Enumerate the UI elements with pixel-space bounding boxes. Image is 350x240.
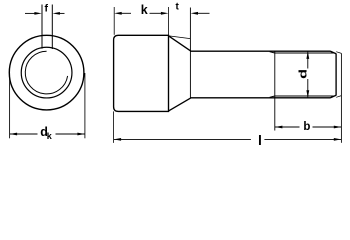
shank bottom line bbox=[190, 97, 330, 99]
svg-text:d: d bbox=[296, 69, 309, 79]
d dimension line with arrows (inside shank) bbox=[307, 51, 309, 68]
shank top line bbox=[190, 50, 330, 52]
dk dimension left extension line bbox=[9, 73, 11, 138]
slot edge left (front view) + extension line for f bbox=[41, 5, 43, 49]
k dimension line with arrows bbox=[122, 12, 132, 14]
tip edge bottom connector bbox=[336, 96, 341, 98]
cone top edge bbox=[169, 36, 191, 51]
tip end face bbox=[335, 54, 337, 96]
svg-text:k: k bbox=[141, 3, 148, 17]
dimension f right arrow bbox=[60, 12, 65, 14]
head top-face circle (front view) bbox=[21, 47, 72, 98]
thread minor diameter arc (front view, 3/4 circle) bbox=[25, 51, 67, 94]
tip chamfer top bbox=[331, 51, 337, 54]
b dimension line with arrows bbox=[275, 126, 300, 128]
head outer circle dk (front view) bbox=[9, 35, 84, 110]
cone bottom edge bbox=[169, 98, 191, 111]
thread minor line bottom with run-in ramp bbox=[270, 96, 335, 97]
svg-text:l: l bbox=[258, 132, 262, 148]
t dimension right arrow (outside) bbox=[198, 12, 210, 14]
dk dimension line with arrows bbox=[10, 133, 38, 135]
head outline (side view, rounded left corners) bbox=[114, 35, 169, 111]
l left extension line (head face down) bbox=[113, 111, 115, 142]
tip chamfer bottom bbox=[331, 95, 337, 98]
tip edge top connector bbox=[336, 52, 341, 54]
dimension f left arrow bbox=[25, 12, 35, 14]
k extension line right (head face up) bbox=[168, 7, 170, 35]
right extension line for b and l bbox=[340, 53, 342, 142]
k dimension left extension line bbox=[113, 7, 115, 35]
thread start line + b extension line bbox=[274, 51, 276, 130]
svg-text:f: f bbox=[44, 3, 48, 15]
svg-text:b: b bbox=[303, 121, 310, 133]
slot edge right (front view) + extension line for f bbox=[51, 5, 53, 50]
thread minor line top with run-in ramp bbox=[270, 52, 335, 53]
l dimension line with arrows bbox=[114, 138, 251, 140]
slot bottom edge (thin diagonal at head right) bbox=[169, 36, 190, 39]
cone base line + t extension line bbox=[189, 8, 191, 98]
dk dimension right extension line bbox=[84, 73, 86, 138]
